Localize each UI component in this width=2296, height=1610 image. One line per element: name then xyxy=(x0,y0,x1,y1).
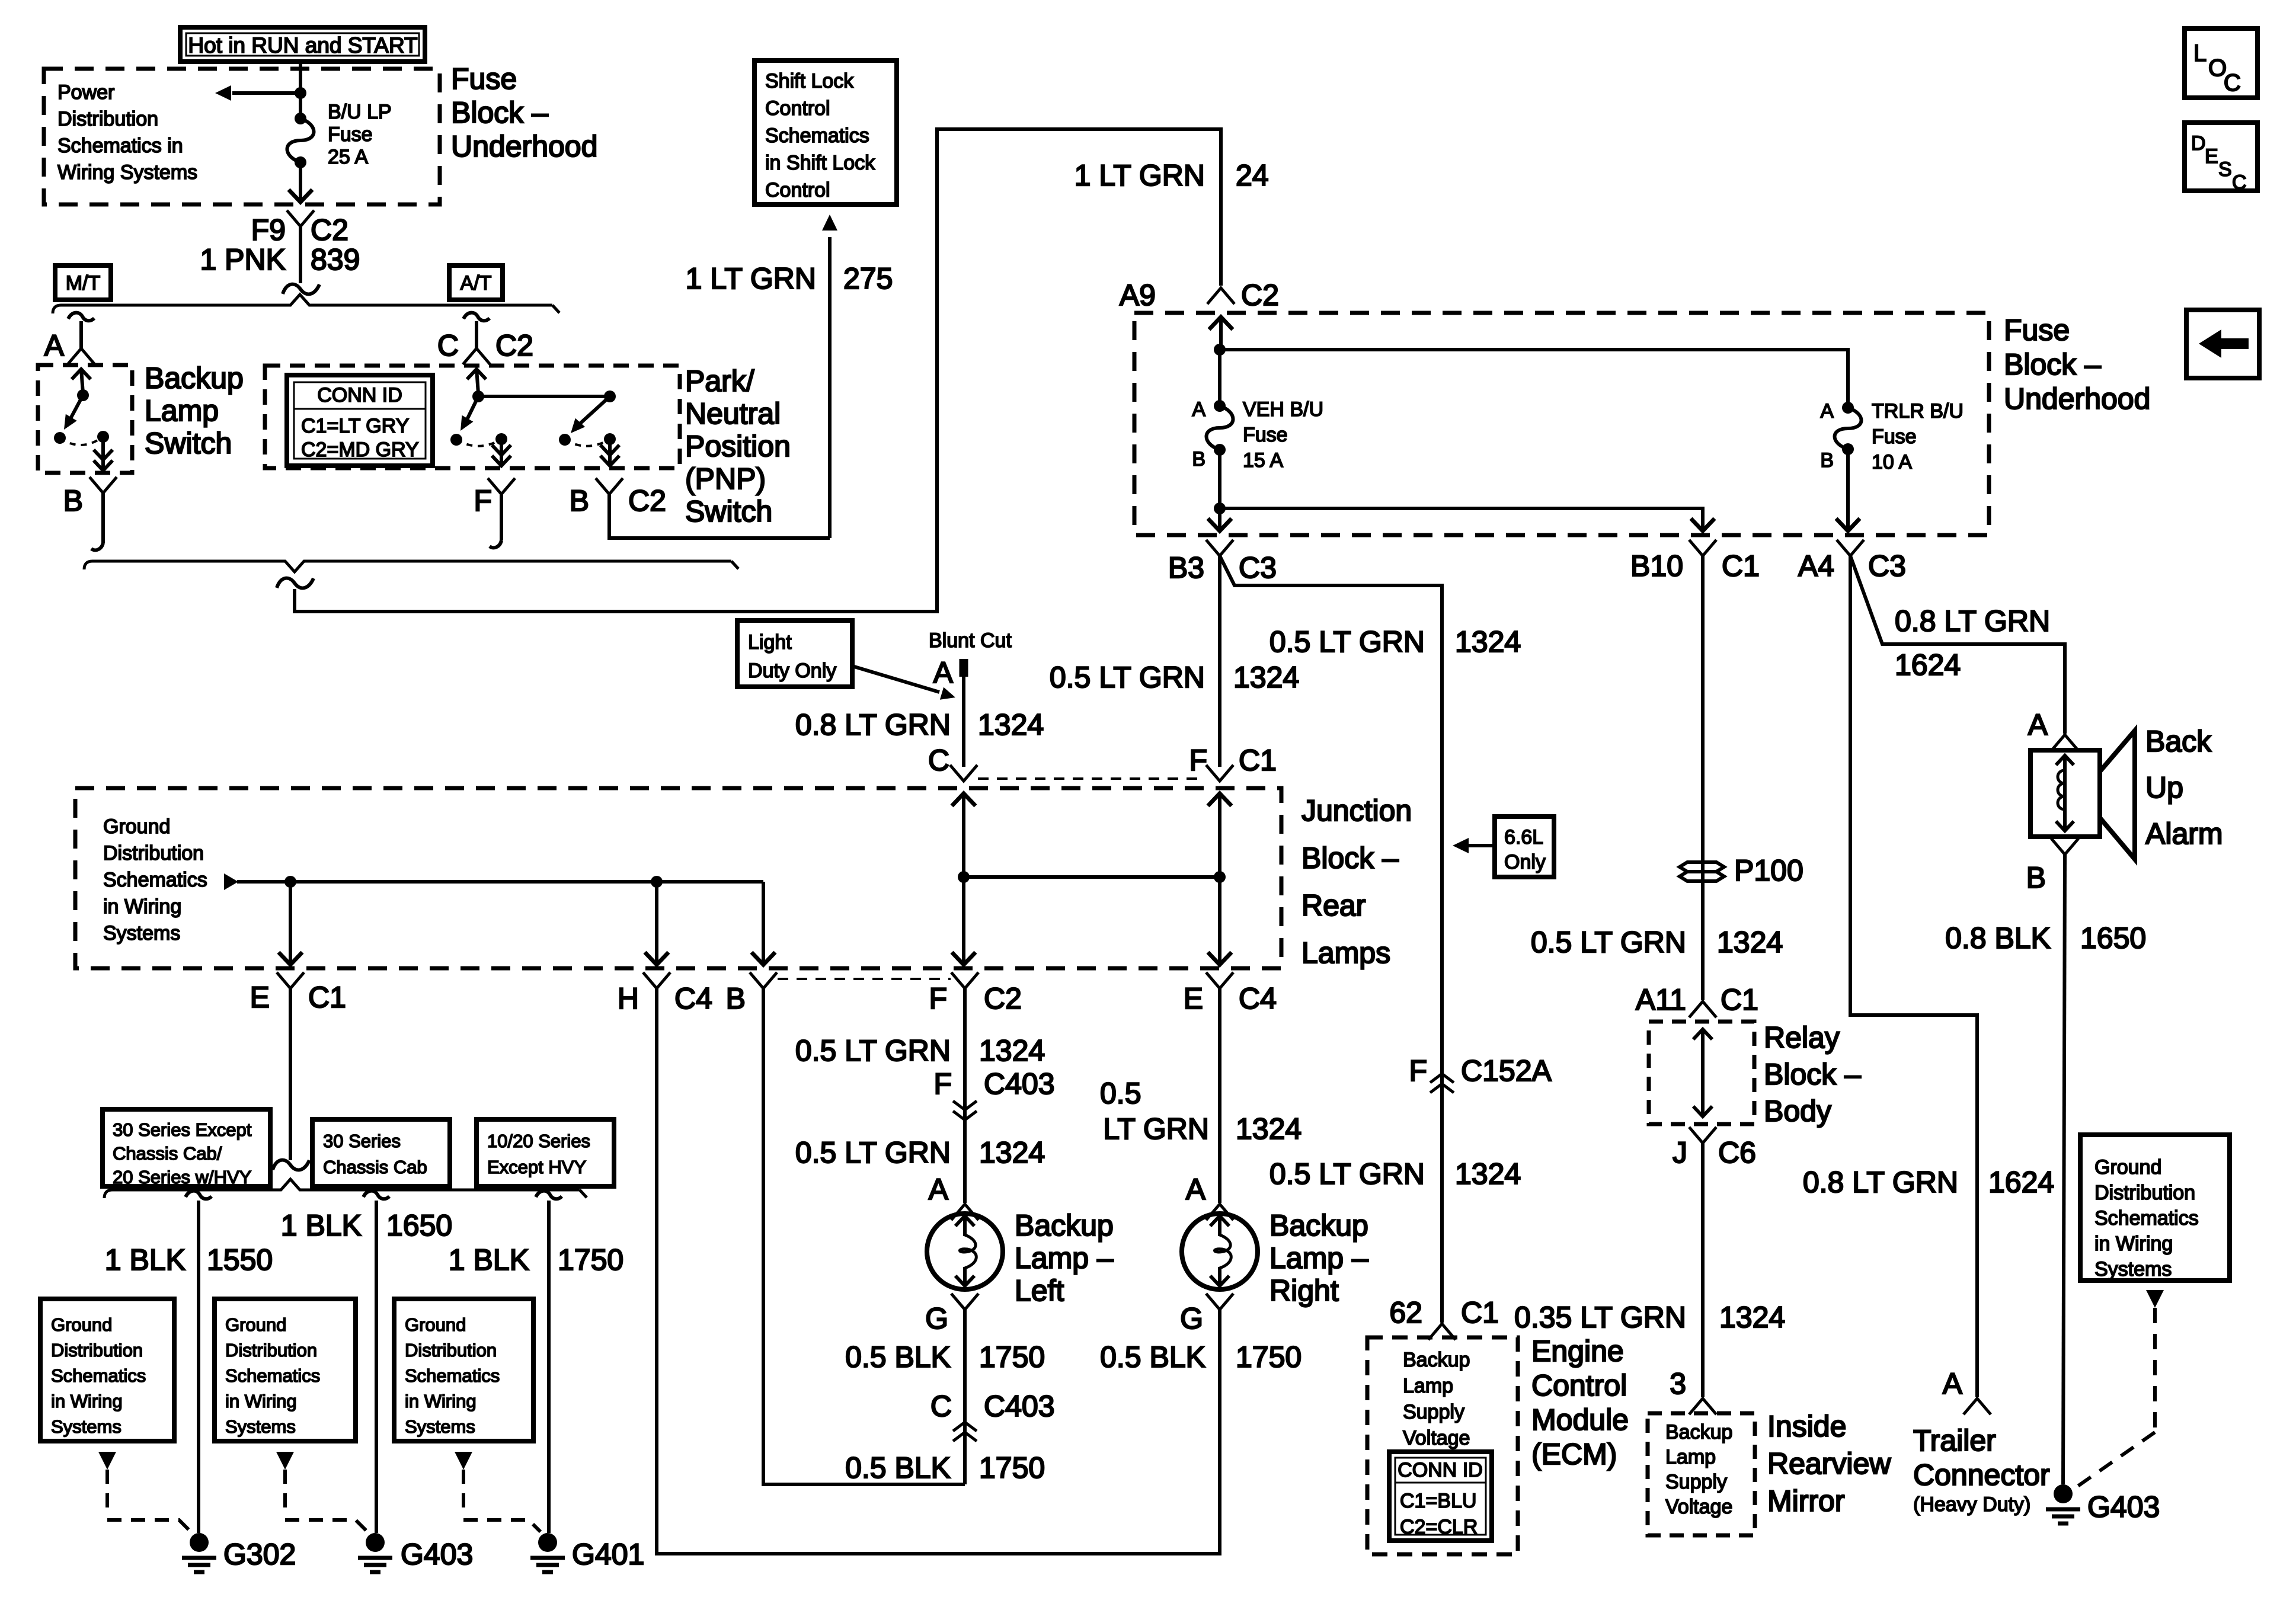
svg-text:1 PNK: 1 PNK xyxy=(200,243,286,276)
svg-text:E: E xyxy=(2205,145,2218,168)
svg-text:C1: C1 xyxy=(1721,983,1758,1016)
svg-text:Left: Left xyxy=(1015,1274,1064,1307)
dashed box: Inside Rearview Mirror xyxy=(1648,1413,1755,1535)
switch contact left xyxy=(54,432,66,444)
svg-text:Systems: Systems xyxy=(225,1416,296,1437)
svg-text:Engine: Engine xyxy=(1531,1334,1624,1368)
svg-text:1650: 1650 xyxy=(2080,921,2146,955)
svg-text:Junction: Junction xyxy=(1302,794,1412,827)
svg-text:Rear: Rear xyxy=(1302,889,1366,922)
svg-text:C: C xyxy=(930,1390,952,1423)
svg-text:B: B xyxy=(1820,449,1834,472)
svg-text:0.8 LT GRN: 0.8 LT GRN xyxy=(1895,604,2050,638)
ground wire 1650 with break curl xyxy=(363,1191,389,1199)
connector A of backup lamp switch xyxy=(68,313,94,321)
svg-text:62: 62 xyxy=(1389,1296,1422,1329)
inline connector F / C403 xyxy=(953,1101,977,1110)
pole 1 throw arc xyxy=(456,439,501,446)
PNP pole 1 blade xyxy=(466,396,478,422)
connector A of left backup lamp xyxy=(951,1204,978,1220)
svg-text:A: A xyxy=(44,329,65,362)
svg-text:1324: 1324 xyxy=(1236,1112,1302,1145)
left lamp ground return wire to junction B xyxy=(763,988,965,1484)
svg-text:E: E xyxy=(1184,982,1203,1015)
svg-text:0.5 BLK: 0.5 BLK xyxy=(845,1340,951,1374)
svg-text:Schematics in: Schematics in xyxy=(57,135,183,157)
svg-text:Lamp: Lamp xyxy=(145,394,219,427)
connector B / C2 below PNP xyxy=(596,478,623,494)
svg-text:Position: Position xyxy=(685,430,791,463)
svg-text:15 A: 15 A xyxy=(1243,449,1283,472)
svg-text:0.8 LT GRN: 0.8 LT GRN xyxy=(1803,1166,1958,1199)
svg-text:1 BLK: 1 BLK xyxy=(281,1209,362,1242)
svg-text:839: 839 xyxy=(311,243,360,276)
wire arrow to power distribution (left) xyxy=(232,91,300,95)
wire from VEH fuse to junction xyxy=(1218,450,1221,508)
inline connector C / C403 (return) xyxy=(953,1422,977,1431)
svg-text:Backup: Backup xyxy=(1269,1209,1368,1242)
svg-text:A4: A4 xyxy=(1798,549,1834,582)
svg-text:Module: Module xyxy=(1531,1403,1629,1436)
thin dashed connector bridge C to F/C1 xyxy=(978,777,1205,780)
svg-text:Systems: Systems xyxy=(2094,1258,2172,1281)
svg-text:0.5 BLK: 0.5 BLK xyxy=(845,1451,951,1484)
switch pin arrow (A) xyxy=(81,369,83,393)
svg-text:C4: C4 xyxy=(674,982,712,1015)
svg-text:1750: 1750 xyxy=(558,1243,623,1276)
svg-text:Distribution: Distribution xyxy=(225,1340,317,1361)
svg-text:Power: Power xyxy=(57,81,114,104)
svg-text:C6: C6 xyxy=(1718,1136,1756,1169)
svg-text:Distribution: Distribution xyxy=(405,1340,497,1361)
svg-text:A/T: A/T xyxy=(461,272,492,295)
svg-text:C403: C403 xyxy=(984,1390,1055,1423)
svg-text:Ground: Ground xyxy=(405,1314,466,1335)
reference box: Shift Lock Control Schematics in Shift Lock Control xyxy=(754,60,897,204)
svg-text:C3: C3 xyxy=(1868,549,1906,582)
svg-text:0.5 BLK: 0.5 BLK xyxy=(1100,1340,1205,1374)
svg-text:24: 24 xyxy=(1236,159,1269,192)
svg-text:Block –: Block – xyxy=(2004,348,2101,381)
thin dashed connector bridge B to F/C2 xyxy=(778,978,951,980)
svg-text:G403: G403 xyxy=(401,1538,473,1571)
ground G403 (right) xyxy=(2054,1484,2073,1503)
svg-text:C1=LT GRY: C1=LT GRY xyxy=(301,415,409,437)
pole 2 throw arc xyxy=(565,439,610,446)
svg-text:Distribution: Distribution xyxy=(103,842,204,865)
svg-text:Inside: Inside xyxy=(1767,1410,1846,1443)
svg-text:Right: Right xyxy=(1269,1274,1339,1307)
connector F / C2 xyxy=(951,972,978,988)
svg-text:Distribution: Distribution xyxy=(57,108,158,130)
reference box: Ground Distribution Schematics (right) xyxy=(2080,1135,2230,1281)
svg-text:Relay: Relay xyxy=(1764,1021,1840,1054)
svg-text:1324: 1324 xyxy=(979,1136,1045,1169)
reference arrow down from ground box xyxy=(2146,1290,2164,1308)
connector B10 / C1 xyxy=(1689,540,1716,556)
reference box: 10/20 Series Except HVY xyxy=(477,1119,614,1186)
reference box: 30 Series Except Chassis Cab/20 Series w/HVY xyxy=(103,1109,270,1186)
svg-text:in Wiring: in Wiring xyxy=(405,1391,477,1411)
junction block internal tie xyxy=(964,875,1220,879)
svg-text:1650: 1650 xyxy=(386,1209,452,1242)
pass-through grommet P100 xyxy=(1680,862,1724,872)
svg-text:G302: G302 xyxy=(223,1538,296,1571)
brace joining M/T and A/T outputs xyxy=(84,561,731,572)
svg-text:0.5 LT GRN: 0.5 LT GRN xyxy=(1050,661,1205,694)
reference arrow to G401 xyxy=(455,1452,472,1470)
wire B10/C1 down to relay block xyxy=(1701,556,1705,1000)
connector G below right lamp xyxy=(1206,1294,1233,1310)
backup lamp right bulb xyxy=(1182,1214,1258,1289)
svg-text:Control: Control xyxy=(1531,1369,1627,1402)
connector C / C2 of PNP switch xyxy=(463,313,490,321)
reference box: 30 Series Chassis Cab xyxy=(312,1119,450,1186)
junction node to B10 exit xyxy=(1214,502,1226,514)
svg-text:Schematics: Schematics xyxy=(225,1365,320,1386)
svg-text:in Shift Lock: in Shift Lock xyxy=(765,152,875,174)
svg-text:Voltage: Voltage xyxy=(1665,1496,1732,1518)
PNP pole 1 pin arrow xyxy=(477,369,478,393)
connector A of right backup lamp xyxy=(1206,1204,1233,1220)
connector 62 / C1 at ECM xyxy=(1428,1324,1456,1340)
reference box: 6.6L Only xyxy=(1495,817,1554,877)
reference arrow to G403 xyxy=(276,1452,294,1470)
switch throw dashed arc xyxy=(60,437,103,445)
arrow from 6.6L Only to wire xyxy=(1469,844,1495,847)
connector A of back up alarm xyxy=(2051,735,2078,751)
svg-text:F: F xyxy=(1189,744,1207,777)
svg-text:0.8 LT GRN: 0.8 LT GRN xyxy=(795,708,951,741)
back up alarm horn xyxy=(2100,731,2135,859)
svg-text:F9: F9 xyxy=(251,213,286,247)
svg-text:Switch: Switch xyxy=(145,427,232,460)
wire from B3/C3 to ECM column xyxy=(1220,556,1442,1323)
svg-text:B/U LP: B/U LP xyxy=(328,101,392,123)
svg-text:F: F xyxy=(1409,1054,1427,1087)
wire to fuse xyxy=(299,93,302,119)
svg-text:A: A xyxy=(929,1173,949,1206)
svg-text:Systems: Systems xyxy=(103,922,180,945)
svg-text:Wiring Systems: Wiring Systems xyxy=(57,161,197,184)
B exit wire arrow xyxy=(762,882,765,965)
right lamp ground return wire to junction H xyxy=(657,988,1220,1554)
ground feed arrow xyxy=(224,873,238,890)
svg-text:Systems: Systems xyxy=(51,1416,121,1437)
svg-text:Lamp: Lamp xyxy=(1403,1375,1453,1397)
CONN ID table xyxy=(287,375,433,466)
wire with arrow up to shift lock control xyxy=(828,237,832,538)
svg-text:Schematics: Schematics xyxy=(405,1365,500,1386)
svg-text:G401: G401 xyxy=(572,1538,644,1571)
svg-text:B10: B10 xyxy=(1630,549,1683,582)
svg-text:C3: C3 xyxy=(1239,551,1277,584)
svg-text:1324: 1324 xyxy=(1455,1157,1521,1190)
DESC nav icon xyxy=(2185,123,2257,191)
dashed box: Engine Control Module xyxy=(1367,1337,1518,1554)
svg-text:Lamp –: Lamp – xyxy=(1269,1241,1368,1275)
backup lamp left bulb xyxy=(927,1214,1003,1289)
svg-text:25 A: 25 A xyxy=(328,146,368,168)
svg-text:Blunt Cut: Blunt Cut xyxy=(929,629,1012,652)
svg-text:B: B xyxy=(1192,448,1205,470)
svg-text:1324: 1324 xyxy=(1455,625,1521,658)
blunt cut wire end xyxy=(960,659,968,677)
svg-text:Up: Up xyxy=(2145,771,2183,804)
svg-text:0.5 LT GRN: 0.5 LT GRN xyxy=(1269,1157,1425,1190)
feed wire to TRLR B/U fuse xyxy=(1220,350,1848,403)
svg-text:Distribution: Distribution xyxy=(2094,1182,2195,1204)
svg-text:D: D xyxy=(2191,132,2206,155)
svg-text:Schematics: Schematics xyxy=(51,1365,146,1386)
svg-text:0.5 LT GRN: 0.5 LT GRN xyxy=(795,1136,951,1169)
svg-text:Fuse: Fuse xyxy=(1872,425,1917,448)
pole 1 contact right xyxy=(495,433,507,445)
svg-text:3: 3 xyxy=(1670,1367,1686,1400)
wire E/C1 down to splice brace xyxy=(289,988,292,1160)
connector B (junction block) xyxy=(750,972,777,988)
svg-text:J: J xyxy=(1673,1136,1687,1169)
pole 2 exit wire double arrow xyxy=(608,439,612,466)
svg-text:B: B xyxy=(2026,861,2046,894)
reference box M/T xyxy=(55,265,111,300)
ground wire 1750 with break curl xyxy=(536,1191,562,1199)
E exit wire arrow xyxy=(289,882,292,965)
connector F below PNP xyxy=(488,478,515,494)
svg-text:A: A xyxy=(1192,398,1205,421)
svg-text:Ground: Ground xyxy=(2094,1156,2161,1179)
TRLR fuse exit arrow A4 xyxy=(1846,449,1850,531)
connector E / C4 xyxy=(1206,972,1233,988)
connector G below left lamp xyxy=(951,1294,978,1310)
svg-text:Park/: Park/ xyxy=(685,364,754,398)
LOC nav icon xyxy=(2185,28,2257,98)
svg-text:1324: 1324 xyxy=(1719,1301,1785,1334)
reference box: Light Duty Only xyxy=(737,620,852,687)
ground bus wire xyxy=(237,880,763,884)
dashed box: Backup Lamp Switch xyxy=(38,365,132,473)
svg-text:1550: 1550 xyxy=(207,1243,273,1276)
ground G302 xyxy=(190,1533,209,1552)
connector B below switch xyxy=(89,477,117,493)
svg-text:C2=MD GRY: C2=MD GRY xyxy=(301,438,419,461)
alarm ground wire xyxy=(2063,854,2065,1484)
connector A4 / C3 xyxy=(1837,540,1864,556)
svg-text:30 Series Except: 30 Series Except xyxy=(113,1119,252,1140)
dashed box: Park/Neutral Position Switch xyxy=(265,366,680,468)
connector A11 / C1 xyxy=(1689,1001,1716,1017)
svg-text:(PNP): (PNP) xyxy=(685,462,766,495)
svg-text:Supply: Supply xyxy=(1665,1471,1727,1493)
junction node to TRLR fuse feed xyxy=(1214,344,1226,356)
svg-text:in Wiring: in Wiring xyxy=(225,1391,297,1411)
svg-text:1324: 1324 xyxy=(978,708,1044,741)
svg-text:Trailer: Trailer xyxy=(1913,1424,1996,1457)
svg-text:Backup: Backup xyxy=(1665,1421,1732,1443)
svg-text:Control: Control xyxy=(765,97,830,120)
reference box: Hot in RUN and START xyxy=(180,27,425,62)
pole 2 contact left xyxy=(559,434,571,446)
svg-text:C2: C2 xyxy=(984,982,1022,1015)
svg-text:Backup: Backup xyxy=(145,361,244,395)
brace splitting M/T and A/T branches xyxy=(53,295,552,313)
svg-text:C: C xyxy=(2232,171,2247,194)
link between poles xyxy=(478,395,610,398)
svg-text:1324: 1324 xyxy=(1233,661,1299,694)
junction block left riser with arrows xyxy=(962,793,965,965)
svg-text:VEH B/U: VEH B/U xyxy=(1243,398,1323,421)
connector B3 / C3 xyxy=(1206,540,1233,556)
svg-text:C1: C1 xyxy=(308,981,346,1014)
switch contact right xyxy=(97,431,109,443)
svg-text:Underhood: Underhood xyxy=(451,130,597,163)
reference box: Ground Distribution Schematics (G403) xyxy=(215,1299,356,1441)
svg-text:Schematics: Schematics xyxy=(103,869,207,891)
pole 1 exit wire double arrow xyxy=(500,439,503,466)
svg-text:in Wiring: in Wiring xyxy=(2094,1233,2173,1255)
svg-text:0.5 LT GRN: 0.5 LT GRN xyxy=(1531,926,1686,959)
svg-text:E: E xyxy=(250,981,270,1014)
svg-text:in Wiring: in Wiring xyxy=(51,1391,123,1411)
svg-text:(ECM): (ECM) xyxy=(1531,1438,1617,1471)
connector B of back up alarm xyxy=(2051,838,2078,854)
svg-text:Fuse: Fuse xyxy=(451,62,517,95)
svg-text:G403: G403 xyxy=(2087,1490,2160,1523)
svg-text:M/T: M/T xyxy=(66,272,101,295)
svg-text:1624: 1624 xyxy=(1895,648,1961,681)
svg-text:TRLR B/U: TRLR B/U xyxy=(1872,400,1964,422)
svg-text:B: B xyxy=(63,484,83,517)
svg-text:Block –: Block – xyxy=(1764,1058,1861,1091)
junction node H branch xyxy=(651,876,663,888)
dashed box: Fuse Block - Underhood xyxy=(1134,313,1989,535)
svg-text:A: A xyxy=(2028,708,2048,741)
dashed reference wire to G403 xyxy=(2153,1308,2157,1432)
svg-text:P100: P100 xyxy=(1734,854,1803,887)
svg-text:1750: 1750 xyxy=(979,1340,1045,1374)
svg-text:C: C xyxy=(2224,70,2241,96)
svg-text:F: F xyxy=(933,1067,952,1100)
svg-text:Fuse: Fuse xyxy=(328,123,373,146)
wire break squiggle above ground brace xyxy=(273,1160,309,1170)
svg-text:0.35 LT GRN: 0.35 LT GRN xyxy=(1514,1301,1686,1334)
svg-text:Lamp –: Lamp – xyxy=(1015,1241,1114,1275)
reference box: Ground Distribution Schematics (G401) xyxy=(394,1299,533,1441)
svg-text:Fuse: Fuse xyxy=(1243,424,1288,446)
svg-text:Mirror: Mirror xyxy=(1767,1484,1845,1518)
svg-text:Distribution: Distribution xyxy=(51,1340,143,1361)
dashed box: Relay Block - Body xyxy=(1649,1022,1754,1124)
svg-text:Shift Lock: Shift Lock xyxy=(765,70,854,92)
svg-text:Connector: Connector xyxy=(1913,1458,2050,1491)
svg-text:C2: C2 xyxy=(1241,279,1279,312)
svg-text:A: A xyxy=(1943,1367,1963,1400)
back up alarm body xyxy=(2030,750,2100,837)
svg-text:C1: C1 xyxy=(1461,1296,1499,1329)
svg-text:Alarm: Alarm xyxy=(2145,817,2223,850)
svg-text:1 BLK: 1 BLK xyxy=(449,1243,529,1276)
svg-text:Lamp: Lamp xyxy=(1665,1446,1716,1468)
wire E/C4 down to right lamp xyxy=(1218,988,1221,1203)
svg-text:A: A xyxy=(1820,400,1834,422)
svg-text:Control: Control xyxy=(765,179,830,201)
svg-text:Backup: Backup xyxy=(1403,1349,1470,1371)
svg-text:Underhood: Underhood xyxy=(2004,382,2150,415)
svg-text:Ground: Ground xyxy=(103,815,170,838)
connector C (blunt cut) xyxy=(950,765,977,781)
entry arrow into fuse block xyxy=(1219,316,1223,353)
brace splitting ground wires xyxy=(104,1179,580,1198)
connector H / C4 xyxy=(643,972,670,988)
svg-text:1324: 1324 xyxy=(1717,926,1783,959)
svg-text:B: B xyxy=(570,484,589,517)
wire to inside rearview mirror xyxy=(1701,1143,1705,1397)
svg-text:B3: B3 xyxy=(1168,551,1204,584)
svg-text:Lamps: Lamps xyxy=(1302,936,1390,969)
svg-text:C: C xyxy=(437,329,459,362)
svg-text:Supply: Supply xyxy=(1403,1401,1464,1423)
connector A of trailer connector xyxy=(1964,1398,1991,1414)
svg-text:Body: Body xyxy=(1764,1094,1831,1128)
svg-text:Rearview: Rearview xyxy=(1767,1447,1891,1480)
svg-text:20 Series w/HVY: 20 Series w/HVY xyxy=(113,1167,251,1188)
svg-text:F: F xyxy=(929,982,947,1015)
svg-text:C1: C1 xyxy=(1239,744,1277,777)
reference arrow to G302 xyxy=(98,1452,116,1470)
svg-text:L: L xyxy=(2193,40,2207,66)
svg-text:Switch: Switch xyxy=(685,495,772,528)
reference box A/T xyxy=(449,265,503,300)
ground G403 xyxy=(366,1533,385,1552)
svg-text:CONN ID: CONN ID xyxy=(317,384,402,406)
wire to pin B with double arrow xyxy=(101,437,105,470)
dashed box: Fuse Block - Underhood (power distribution) xyxy=(44,69,440,204)
svg-text:in Wiring: in Wiring xyxy=(103,895,181,918)
svg-text:C1: C1 xyxy=(1722,549,1760,582)
svg-text:B: B xyxy=(726,982,746,1015)
svg-text:1 BLK: 1 BLK xyxy=(105,1243,186,1276)
svg-text:C2: C2 xyxy=(311,213,348,247)
wire A4/C3 down and over to trailer connector xyxy=(1850,556,1977,1397)
wire to VEH B/U fuse xyxy=(1218,350,1221,401)
fuse B/U LP 25A xyxy=(295,113,306,124)
svg-text:1 LT GRN: 1 LT GRN xyxy=(1075,159,1205,192)
H exit wire arrow xyxy=(655,882,658,965)
svg-text:1750: 1750 xyxy=(979,1451,1045,1484)
svg-text:30 Series: 30 Series xyxy=(323,1131,401,1151)
svg-text:Backup: Backup xyxy=(1015,1209,1114,1242)
wire label 0.5 BLK 1750 xyxy=(963,1310,967,1484)
junction block right riser with arrows xyxy=(1218,793,1221,965)
svg-text:LT GRN: LT GRN xyxy=(1103,1112,1209,1145)
connector F / C1 xyxy=(1206,765,1233,781)
back-arrow nav icon xyxy=(2186,310,2259,378)
svg-text:G: G xyxy=(925,1302,948,1335)
svg-text:Chassis Cab/: Chassis Cab/ xyxy=(113,1143,222,1164)
connector J / C6 xyxy=(1689,1127,1716,1143)
branch wire to B10 exit with arrow xyxy=(1220,508,1703,531)
svg-text:1624: 1624 xyxy=(1988,1166,2054,1199)
svg-text:Chassis Cab: Chassis Cab xyxy=(323,1157,427,1177)
svg-text:Hot in RUN and START: Hot in RUN and START xyxy=(188,33,417,57)
svg-text:Block –: Block – xyxy=(451,96,548,129)
svg-text:F: F xyxy=(474,484,492,517)
svg-text:275: 275 xyxy=(843,262,893,295)
PNP pole 2 pivot xyxy=(604,391,616,402)
wire from Hot in RUN into fuse block xyxy=(299,62,302,93)
svg-text:C2=CLR: C2=CLR xyxy=(1400,1516,1478,1538)
svg-text:A11: A11 xyxy=(1636,983,1686,1016)
